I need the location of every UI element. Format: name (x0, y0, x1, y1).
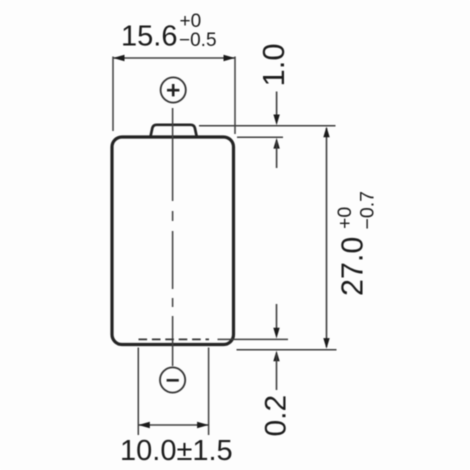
minus terminal circle (160, 367, 185, 392)
arrowhead down (1.0) (273, 115, 279, 126)
dimension 1.0 lower leader (276, 142, 278, 169)
arrowhead up (27.0) (323, 127, 329, 138)
extension line at battery top level (237, 136, 283, 138)
dimension line 27.0 (right) (326, 128, 328, 347)
extension line right (15.6) (234, 57, 236, 135)
arrowhead down (0.2) (273, 328, 279, 339)
svg-text:−0.5: −0.5 (179, 30, 217, 51)
extension line right (10.0) (208, 348, 210, 436)
extension line left (10.0) (137, 348, 139, 436)
svg-text:0.2: 0.2 (260, 395, 293, 437)
hidden bottom contact edge (dashed) (139, 338, 210, 340)
extension line bottom plane (0.2 upper, solid part) (218, 338, 289, 340)
svg-text:+0: +0 (334, 207, 356, 229)
extension line at cap top level (199, 125, 336, 127)
minus sign (167, 379, 179, 382)
dimension line 10.0 (bottom) (138, 424, 208, 426)
svg-text:−0.7: −0.7 (357, 191, 379, 230)
svg-text:15.6: 15.6 (121, 20, 177, 52)
arrowhead left (15.6) (113, 55, 125, 61)
extension line lowest plane (237, 349, 337, 351)
arrowhead right (15.6) (224, 55, 236, 61)
dimension 0.2 upper leader (276, 304, 278, 335)
svg-text:10.0±1.5: 10.0±1.5 (120, 435, 233, 467)
arrowhead down (27.0) (323, 338, 329, 349)
dimension line 15.6 (top) (113, 57, 235, 59)
dimension 0.2 lower leader (276, 354, 278, 390)
extension line left (15.6) (112, 57, 114, 132)
dimension 1.0 upper leader (276, 92, 278, 122)
plus sign (167, 84, 179, 96)
arrowhead up (0.2) (273, 351, 279, 362)
svg-text:+0: +0 (180, 11, 202, 32)
positive button cap (151, 125, 197, 137)
plus terminal circle (161, 77, 186, 102)
arrowhead right (10.0) (197, 422, 209, 428)
vertical center line (dash-dot) (172, 108, 174, 366)
battery body outline (112, 137, 234, 345)
svg-text:1.0: 1.0 (256, 43, 291, 86)
arrowhead up (1.0) (273, 138, 279, 149)
arrowhead left (10.0) (138, 422, 150, 428)
svg-text:27.0: 27.0 (336, 237, 370, 296)
